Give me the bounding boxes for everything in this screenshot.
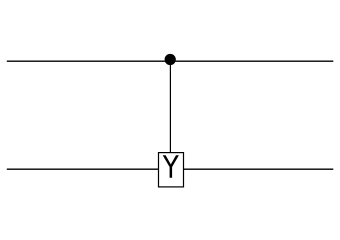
wire vertical connector control-to-gate [169, 60, 171, 154]
wire q1 (bottom qubit line) [7, 168, 334, 170]
node control dot on q0 [165, 54, 176, 65]
gate Y box outline [159, 153, 184, 187]
wire q0 (top qubit line) [7, 60, 334, 62]
gate Y label [163, 155, 179, 178]
